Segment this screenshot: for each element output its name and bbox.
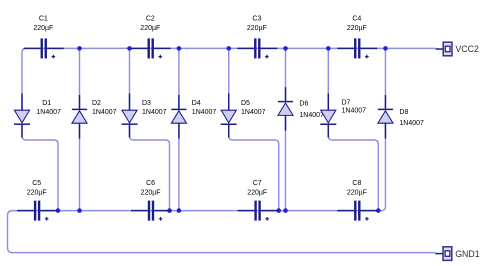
junction on bottom rail at x=285.5 [283,208,288,213]
wire: vertical from top rail junction down to D3 [129,48,131,110]
svg-text:220µF: 220µF [33,25,53,32]
svg-text:1N4007: 1N4007 [142,109,167,116]
svg-text:D3: D3 [142,100,151,107]
svg-text:220µF: 220µF [247,25,267,32]
capacitor C2 220uF [131,16,171,59]
svg-text:1N4007: 1N4007 [36,109,61,116]
svg-text:C4: C4 [352,16,361,23]
capacitor C3 220uF [237,16,277,59]
diode D1 1N4007 [14,94,61,138]
svg-text:C6: C6 [146,180,155,187]
wire: bottom capacitor rail C5..C8 ending at D7/D8 node [8,211,379,216]
junction on top rail at x=129.5 [127,46,132,51]
svg-text:C1: C1 [39,16,48,23]
wire: D8 bottom curving left into bottom rail end node [378,123,385,210]
svg-text:C2: C2 [146,16,155,23]
svg-text:D2: D2 [92,100,101,107]
capacitor C7 220uF [238,180,278,221]
svg-text:GND1: GND1 [455,249,480,259]
diode D6 1N4007 [278,87,324,131]
wire: vertical from top rail junction down to D7 [327,48,329,110]
wire: D1 bottom bent wire down-right to bottom rail node [22,124,58,210]
junction on top rail at x=328.3 [326,46,331,51]
capacitor C1 220uF [24,16,64,59]
svg-text:C7: C7 [253,180,262,187]
junction on bottom rail at x=178.9 [177,208,182,213]
junction on bottom rail at x=79.5 [77,208,82,213]
svg-text:220µF: 220µF [247,189,267,196]
wire: vertical from top rail junction down to D2 [79,48,81,110]
svg-text:220µF: 220µF [141,189,161,196]
svg-text:D1: D1 [42,100,51,107]
svg-text:D7: D7 [342,99,351,106]
svg-text:1N4007: 1N4007 [192,109,217,116]
diode D3 1N4007 [122,94,167,138]
wire: ground return run to GND1 terminal [12,252,436,254]
junction on top rail at x=385.45 [383,46,388,51]
svg-text:220µF: 220µF [140,25,160,32]
svg-text:VCC2: VCC2 [455,44,479,54]
svg-text:1N4007: 1N4007 [399,120,424,127]
junction on top rail at x=285.5 [283,46,288,51]
wire: vertical from top rail junction down to D5 [228,48,230,110]
terminal GND1 [435,247,479,261]
wire: D2 bottom straight down to bottom rail [79,123,81,210]
diode D8 1N4007 [378,95,424,139]
capacitor C8 220uF [337,180,377,221]
diode D7 1N4007 [320,94,366,138]
junction on top rail at x=79.5 [77,46,82,51]
svg-text:C5: C5 [32,180,41,187]
junction on bottom rail at x=58.0 [56,208,61,213]
svg-text:C3: C3 [252,16,261,23]
capacitor C5 220uF [17,180,57,221]
svg-text:C8: C8 [352,180,361,187]
svg-text:1N4007: 1N4007 [342,108,367,115]
wire: vertical from top rail junction down to D8 [384,48,386,110]
diode D2 1N4007 [72,95,117,139]
wire: top rail from VCC2 pin to top-left corner, bending down toward D1 [22,48,436,110]
terminal VCC2 [436,42,479,56]
svg-text:D4: D4 [192,100,201,107]
junction on top rail at x=178.9 [177,46,182,51]
diode D4 1N4007 [171,95,216,139]
wire: D7 bottom bent wire down-right to bottom rail end node [328,124,378,210]
svg-text:D5: D5 [241,100,250,107]
wire: left drop from bottom rail to ground return [8,216,13,253]
svg-text:D8: D8 [399,109,408,116]
svg-text:220µF: 220µF [347,25,367,32]
junction on top rail at x=228.75 [226,46,231,51]
capacitor C4 220uF [337,16,377,59]
wire: D5 bottom bent wire down-right to bottom rail node [229,124,279,210]
svg-text:220µF: 220µF [347,189,367,196]
wire: vertical from top rail junction down to D6 [285,48,287,101]
junction on bottom rail at x=169.5 [167,208,172,213]
svg-text:D6: D6 [299,101,308,108]
capacitor C6 220uF [131,180,171,221]
wire: D6 bottom straight down to bottom rail [285,115,287,210]
junction on bottom rail at x=378.3 [376,208,381,213]
svg-text:1N4007: 1N4007 [241,109,266,116]
wire: D3 bottom bent wire down-right to bottom rail node [130,124,170,210]
junction on bottom rail at x=278.75 [276,208,281,213]
svg-text:1N4007: 1N4007 [92,109,117,116]
wire: vertical from top rail junction down to D4 [178,48,180,110]
svg-text:1N4007: 1N4007 [299,112,324,119]
diode D5 1N4007 [221,94,266,138]
svg-text:220µF: 220µF [27,189,47,196]
wire: D4 bottom straight down to bottom rail [178,123,180,210]
